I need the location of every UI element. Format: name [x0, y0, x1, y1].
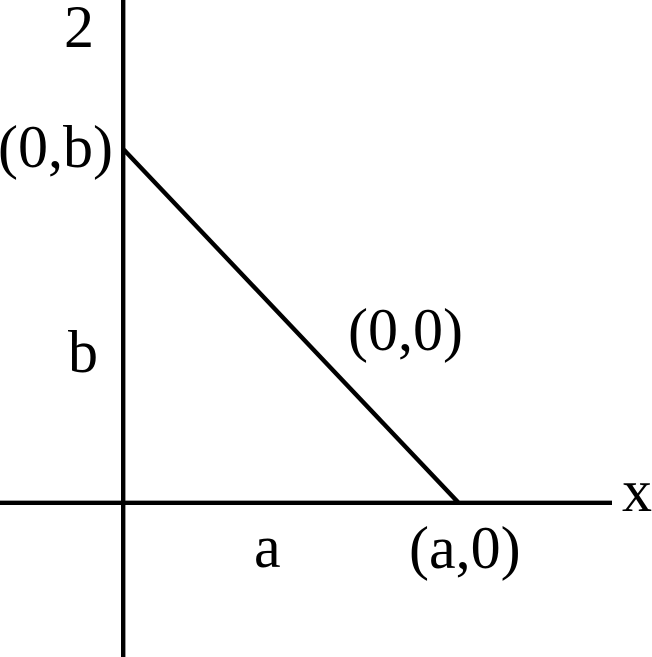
svg-text:x: x: [622, 458, 652, 524]
svg-text:a: a: [254, 514, 281, 580]
y-axis: [121, 0, 125, 657]
x-axis: [0, 501, 612, 505]
svg-text:(0,b): (0,b): [0, 114, 113, 180]
svg-text:2: 2: [64, 0, 94, 60]
svg-text:(a,0): (a,0): [409, 515, 521, 581]
svg-text:(0,0): (0,0): [348, 297, 463, 363]
svg-text:b: b: [68, 319, 98, 385]
hypotenuse line from (0,b) to (a,0): [123, 149, 459, 503]
